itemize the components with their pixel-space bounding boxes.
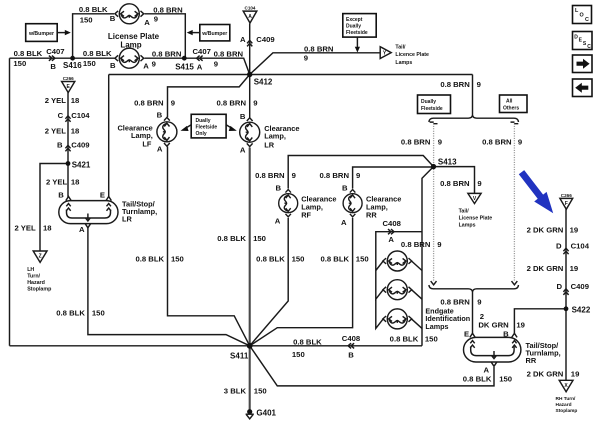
svg-text:w/Bumper: w/Bumper — [28, 31, 54, 37]
svg-text:LR: LR — [122, 215, 133, 224]
svg-text:A: A — [79, 225, 85, 234]
svg-text:9: 9 — [437, 240, 441, 249]
svg-text:B: B — [110, 61, 116, 70]
svg-text:Turn/: Turn/ — [27, 273, 40, 279]
wire: S412 branch to clearance lamp LF B pin — [168, 75, 250, 118]
lamp: endgate identification lamp 2 — [383, 280, 412, 300]
wire: S416 to bottom license lamp — [114, 57, 116, 59]
connector C104 triangle (top, letter A) — [243, 5, 257, 23]
svg-text:A: A — [248, 14, 252, 20]
junction S421 — [66, 161, 71, 166]
svg-text:150: 150 — [171, 254, 184, 263]
svg-text:9: 9 — [477, 179, 481, 188]
svg-text:D: D — [556, 282, 562, 291]
wire: option brace feed drop from main bus — [472, 75, 474, 116]
svg-text:A: A — [341, 218, 347, 227]
wire: S413 down-left to C408-A endgate feed — [422, 167, 434, 346]
wire: endgate lamp 3 right stub — [412, 319, 423, 329]
svg-text:150: 150 — [292, 254, 305, 263]
wire: clearance RR A down, left, diagonal to S411 — [250, 218, 353, 346]
svg-text:B: B — [342, 184, 348, 193]
svg-text:Hazard: Hazard — [556, 402, 572, 408]
svg-text:A: A — [197, 62, 203, 71]
wire: S411 to G401 ground (3 BLK 150) — [249, 346, 251, 412]
svg-text:B: B — [503, 329, 509, 338]
svg-text:RR: RR — [526, 356, 537, 365]
svg-text:150: 150 — [92, 308, 105, 317]
svg-text:0.8 BLK: 0.8 BLK — [463, 375, 492, 384]
svg-text:RR: RR — [366, 210, 377, 219]
svg-text:B: B — [157, 111, 163, 120]
lamp: license plate lamp (top) — [115, 4, 144, 24]
svg-text:2 YEL: 2 YEL — [14, 224, 36, 233]
svg-text:0.8 BRN: 0.8 BRN — [304, 44, 334, 53]
connector C408-A chevrons (endgate feed) — [388, 229, 394, 234]
svg-text:0.8 BRN: 0.8 BRN — [214, 49, 244, 58]
junction S415 — [182, 56, 187, 61]
svg-text:All: All — [506, 99, 513, 105]
svg-text:C: C — [587, 44, 591, 50]
wire: S413 branch right to V triangle (tail/license lamps) — [434, 167, 475, 194]
lamp: clearance lamp LR — [240, 118, 260, 147]
connector C266 triangle (right, letter F) — [560, 193, 573, 209]
svg-text:A: A — [144, 18, 150, 27]
svg-text:9: 9 — [304, 54, 308, 63]
lamp: clearance lamp LF — [157, 117, 177, 146]
svg-text:A: A — [143, 62, 149, 71]
wire: C266-F drop through C104, C409 to S422 — [565, 209, 567, 309]
svg-text:C266: C266 — [561, 193, 572, 198]
button: left arrow box — [573, 79, 593, 97]
svg-text:9: 9 — [477, 80, 481, 89]
svg-text:Except: Except — [346, 17, 363, 23]
lamp: license plate lamp (bottom) — [115, 48, 144, 68]
component: tail/stop/turnlamp LR (stadium) — [59, 197, 118, 228]
svg-text:9: 9 — [152, 59, 156, 68]
svg-text:9: 9 — [214, 59, 218, 68]
box: w/Bumper (left) with arrow — [26, 24, 71, 42]
svg-text:0.8 BRN: 0.8 BRN — [482, 138, 512, 147]
svg-text:19: 19 — [571, 369, 580, 378]
arrowhead top of left dashed wire — [430, 122, 438, 124]
svg-text:C104: C104 — [245, 5, 256, 10]
svg-text:9: 9 — [438, 138, 442, 147]
svg-text:150: 150 — [253, 234, 266, 243]
wire: C408-A horizontal and endgate left bus — [376, 232, 422, 271]
svg-text:C408: C408 — [342, 334, 361, 343]
svg-text:150: 150 — [83, 59, 96, 68]
wire: RF B riser and run to S413 — [288, 156, 433, 189]
dashed option wire: All Others (right) — [513, 124, 515, 281]
connector C104 on left 2YEL chain — [65, 116, 70, 122]
wire: endgate left bus to stub lamp 2 — [376, 271, 383, 300]
wire: endgate lamp 2 right stub — [412, 290, 423, 300]
svg-text:0.8 BRN: 0.8 BRN — [134, 98, 164, 107]
lamp: endgate identification lamp 1 — [383, 251, 412, 271]
wire: endgate left bus stub to lamp 1 — [376, 261, 383, 271]
svg-text:A: A — [240, 35, 246, 44]
svg-text:0.8 BRN: 0.8 BRN — [440, 297, 470, 306]
svg-text:0.8 BLK: 0.8 BLK — [14, 49, 43, 58]
svg-text:A: A — [157, 145, 163, 154]
svg-text:Stoplamp: Stoplamp — [27, 286, 52, 292]
svg-text:B: B — [275, 184, 281, 193]
svg-text:9: 9 — [477, 297, 481, 306]
svg-text:RF: RF — [301, 210, 311, 219]
connector C409 on C104 drop (x=249.7) — [247, 40, 252, 46]
svg-text:DK GRN: DK GRN — [478, 320, 509, 329]
svg-text:LF: LF — [142, 139, 152, 148]
svg-text:18: 18 — [71, 127, 80, 136]
svg-text:18: 18 — [43, 224, 52, 233]
connector C407-B chevrons (on S416 wire) — [49, 56, 55, 61]
svg-text:B: B — [240, 112, 246, 121]
svg-text:150: 150 — [425, 335, 438, 344]
svg-text:0.8 BRN: 0.8 BRN — [217, 98, 247, 107]
button: DESC box — [573, 32, 593, 51]
wire: S412 branch to Y triangle (tail/licence lamps) — [250, 53, 380, 75]
svg-text:C409: C409 — [571, 282, 589, 291]
wire: top branch from lamp A to S415 drop — [145, 14, 186, 58]
svg-text:C: C — [58, 111, 64, 120]
svg-text:3 BLK: 3 BLK — [224, 386, 247, 395]
svg-text:0.8 BRN: 0.8 BRN — [401, 138, 431, 147]
svg-text:9: 9 — [518, 138, 522, 147]
svg-text:150: 150 — [80, 16, 93, 25]
svg-text:S422: S422 — [572, 305, 591, 314]
svg-text:B: B — [50, 62, 56, 71]
svg-text:Dually: Dually — [346, 24, 361, 30]
junction S413 — [431, 164, 436, 169]
svg-text:C407: C407 — [193, 47, 211, 56]
svg-text:Stoplamp: Stoplamp — [556, 408, 578, 414]
svg-text:18: 18 — [71, 178, 80, 187]
wire: S422 branch to tail RR B pin — [514, 309, 566, 333]
svg-text:0.8 BLK: 0.8 BLK — [256, 254, 285, 263]
svg-text:LR: LR — [264, 140, 275, 149]
svg-text:F: F — [565, 201, 568, 207]
wire: S422 down to RH turn/hazard stoplamp — [565, 309, 567, 380]
svg-text:B: B — [110, 14, 116, 23]
box: All Others (option label) — [500, 95, 528, 113]
box: Except Dually Fleetside with down arrow — [343, 14, 376, 53]
terminal: Z triangle LH turn/hazard stoplamp — [33, 251, 47, 262]
wire: clearance LF A down then to S411 — [168, 147, 250, 346]
svg-text:C104: C104 — [71, 111, 90, 120]
bottom option brace — [429, 285, 519, 292]
svg-text:0.8 BLK: 0.8 BLK — [56, 308, 85, 317]
wire: clearance LR A down to S411 (0.8 BLK 150) — [249, 148, 251, 346]
svg-text:E: E — [100, 191, 105, 200]
svg-text:A: A — [483, 365, 489, 374]
svg-text:0.8 BLK: 0.8 BLK — [83, 49, 112, 58]
svg-text:9: 9 — [356, 171, 360, 180]
wire: clearance RF A down then diagonal to S411 — [250, 218, 289, 346]
junction S411 — [247, 343, 253, 349]
junction S422 — [564, 306, 569, 311]
svg-text:0.8 BRN: 0.8 BRN — [401, 240, 431, 249]
svg-text:S413: S413 — [438, 157, 457, 166]
wire: tail lamp LR A pin down and to S411 — [88, 228, 250, 346]
svg-text:2 YEL: 2 YEL — [45, 96, 67, 105]
svg-text:2 DK GRN: 2 DK GRN — [527, 369, 564, 378]
wire: bottom lamp A through C407-A to S412 diagonal — [145, 58, 250, 74]
component: tail/stop/turnlamp RR (stadium) — [464, 333, 521, 366]
svg-text:O: O — [580, 13, 584, 19]
wire: left edge vertical down to S411 bottom run — [9, 58, 11, 346]
lamp: clearance lamp RR — [343, 190, 362, 217]
svg-text:S416: S416 — [63, 61, 82, 70]
wire: S421 branch to LH turn/hazard stoplamp — [40, 164, 68, 251]
wire: endgate lamp 1 right stub to right bus — [412, 261, 423, 271]
svg-text:B: B — [58, 191, 64, 200]
svg-text:2 DK GRN: 2 DK GRN — [527, 225, 564, 234]
wire: main horizontal bus y=74.5 from E-pin riser to option brace drop — [109, 74, 473, 76]
connector C409 on right DK GRN chain — [563, 289, 568, 295]
svg-text:9: 9 — [171, 98, 175, 107]
svg-text:0.8 BLK: 0.8 BLK — [390, 335, 419, 344]
svg-text:C266: C266 — [63, 76, 74, 81]
svg-text:D: D — [556, 241, 562, 250]
svg-text:C104: C104 — [571, 241, 590, 250]
connector C104 on right DK GRN chain — [563, 248, 568, 254]
svg-text:C409: C409 — [256, 35, 274, 44]
svg-text:Dually: Dually — [196, 118, 211, 124]
svg-text:9: 9 — [292, 171, 296, 180]
svg-text:150: 150 — [292, 350, 305, 359]
button: LOC box — [573, 6, 592, 24]
svg-text:0.8 BLK: 0.8 BLK — [135, 254, 164, 263]
svg-text:E: E — [464, 329, 469, 338]
connector C408-B chevrons (on ground bus) — [348, 343, 354, 348]
svg-text:C407: C407 — [46, 47, 64, 56]
svg-text:Dually: Dually — [421, 99, 436, 105]
svg-text:2 DK GRN: 2 DK GRN — [527, 264, 564, 273]
svg-text:B: B — [348, 350, 354, 359]
svg-text:Z: Z — [39, 254, 42, 260]
svg-text:150: 150 — [13, 59, 26, 68]
box: Dually Fleetside (option label) — [418, 95, 451, 114]
wire: S411 to tail lamp RR A pin run — [250, 346, 494, 386]
blue pointer arrow — [519, 170, 553, 213]
box: w/Bumper (right) with arrow — [187, 25, 230, 41]
connector C407-A chevrons (before S415) — [197, 56, 203, 61]
svg-text:S412: S412 — [254, 77, 273, 86]
svg-text:Tail/: Tail/ — [395, 44, 406, 50]
svg-text:License Plate: License Plate — [459, 216, 493, 222]
lamp: clearance lamp RF — [279, 190, 298, 217]
ground G401 dot and arrow — [247, 409, 252, 414]
svg-text:S411: S411 — [230, 351, 249, 360]
svg-text:Fleetside: Fleetside — [421, 106, 443, 112]
wire: E pin riser of tail lamp LR — [108, 75, 110, 198]
svg-text:0.8 BRN: 0.8 BRN — [152, 49, 182, 58]
svg-text:A: A — [275, 216, 281, 225]
svg-text:150: 150 — [356, 254, 369, 263]
lamp: endgate identification lamp 3 — [383, 309, 412, 329]
svg-text:0.8 BRN: 0.8 BRN — [153, 6, 183, 15]
svg-text:0.8 BLK: 0.8 BLK — [217, 234, 246, 243]
svg-text:Tail/: Tail/ — [459, 208, 470, 214]
connector C409 on left 2YEL chain — [65, 145, 70, 151]
svg-text:C408: C408 — [383, 219, 402, 228]
wire: endgate left bus to stub lamp 3 — [376, 299, 383, 328]
svg-text:0.8 BRN: 0.8 BRN — [255, 171, 285, 180]
svg-text:0.8 BRN: 0.8 BRN — [440, 179, 470, 188]
svg-text:RH Turn/: RH Turn/ — [556, 396, 577, 402]
svg-text:Lamps: Lamps — [395, 60, 412, 66]
junction S412 — [247, 72, 252, 77]
svg-text:0.8 BRN: 0.8 BRN — [320, 171, 350, 180]
svg-text:S421: S421 — [72, 160, 91, 169]
svg-text:LH: LH — [27, 267, 34, 273]
button: right arrow box — [573, 55, 593, 73]
svg-text:19: 19 — [516, 320, 525, 329]
wire: S416 riser to top license lamp branch — [73, 14, 114, 58]
svg-text:18: 18 — [71, 96, 80, 105]
svg-text:9: 9 — [154, 15, 158, 24]
svg-text:19: 19 — [570, 225, 579, 234]
svg-text:C: C — [585, 17, 589, 23]
svg-text:150: 150 — [499, 375, 512, 384]
wire: C266-E drop through C104 and C409 to S421 and tail LR B pin — [67, 92, 69, 197]
top option brace — [429, 115, 519, 122]
svg-text:0.8 BRN: 0.8 BRN — [440, 80, 470, 89]
svg-text:Licence Plate: Licence Plate — [395, 52, 429, 58]
svg-text:0.8 BLK: 0.8 BLK — [79, 5, 108, 14]
svg-text:0.8 BLK: 0.8 BLK — [320, 254, 349, 263]
svg-text:2 YEL: 2 YEL — [45, 127, 67, 136]
svg-text:Others: Others — [503, 106, 519, 112]
svg-text:A: A — [388, 235, 394, 244]
svg-text:S415: S415 — [175, 62, 194, 71]
svg-text:A: A — [240, 145, 246, 154]
svg-text:w/Bumper: w/Bumper — [201, 31, 227, 37]
wire: left feed 0.8 BLK from edge to C407/S416 (y=58.2) — [10, 57, 116, 59]
svg-text:150: 150 — [254, 386, 267, 395]
arrowhead bottom of left dashed wire — [431, 281, 437, 285]
svg-text:Only: Only — [196, 131, 207, 137]
svg-text:Fleetside: Fleetside — [196, 124, 218, 130]
svg-text:Lamps: Lamps — [425, 322, 448, 331]
svg-text:Lamp,: Lamp, — [264, 132, 286, 141]
terminal: X triangle RH turn/hazard stoplamp — [559, 380, 573, 391]
svg-text:19: 19 — [570, 264, 579, 273]
svg-text:Fleetside: Fleetside — [346, 30, 368, 36]
terminal: V triangle to tail/license plate lamps — [468, 193, 481, 203]
dashed option wire: Dually Fleetside (left) — [433, 124, 435, 281]
terminal: Y triangle to tail/licence plate lamps — [380, 47, 391, 59]
wire: bottom brace to tail RR E pin — [472, 292, 474, 335]
arrowhead bottom of right dashed wire — [512, 281, 518, 285]
connector C266 triangle (left, letter E) — [62, 76, 75, 93]
box: Dually Fleetside Only with side arrows — [181, 114, 237, 138]
svg-text:Hazard: Hazard — [27, 280, 45, 286]
svg-text:2 YEL: 2 YEL — [46, 178, 68, 187]
wire: C104 top drop through C409 to S412 — [249, 23, 251, 118]
svg-text:0.8 BLK: 0.8 BLK — [293, 337, 322, 346]
svg-text:Lamps: Lamps — [459, 222, 476, 228]
arrowhead top of right dashed wire — [511, 122, 519, 124]
svg-text:9: 9 — [253, 98, 257, 107]
wire: RR B riser and run to S413 — [353, 167, 434, 189]
svg-text:Lamp: Lamp — [120, 41, 141, 50]
wire: bottom ground bus y=345.8 from left edge through S411 and C408-B to endgate bus — [10, 345, 423, 347]
svg-text:C409: C409 — [71, 141, 89, 150]
svg-text:G401: G401 — [256, 408, 276, 417]
junction S416 — [70, 56, 75, 61]
svg-text:B: B — [57, 141, 63, 150]
